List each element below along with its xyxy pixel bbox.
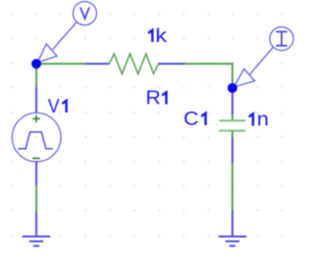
ground lead left (blue) xyxy=(35,212,37,237)
voltage probe circle xyxy=(73,2,97,26)
resistor R1 left lead (blue) xyxy=(86,63,109,65)
label R1 xyxy=(146,87,168,109)
wire: V1 to ground (green) xyxy=(35,185,37,212)
node B junction dot xyxy=(228,83,238,93)
capacitor C1 bottom stub (green) xyxy=(231,131,233,138)
V1 pulse waveform xyxy=(18,132,53,149)
voltage probe shaft xyxy=(53,22,77,50)
resistor R1 zigzag body xyxy=(109,54,158,74)
resistor R1 right lead (blue) xyxy=(158,63,185,65)
current probe circle xyxy=(270,27,294,51)
wire: resistor to node B corner (green) xyxy=(185,64,232,84)
current probe arrowhead xyxy=(234,69,255,87)
V1 plus mark xyxy=(33,115,40,122)
wire: node A to resistor left lead (green) xyxy=(36,63,86,65)
node A junction dot xyxy=(31,59,41,69)
svg-text:R: R xyxy=(146,87,161,109)
capacitor bottom pin (blue) xyxy=(231,137,233,163)
label 1k xyxy=(148,25,167,47)
svg-text:V: V xyxy=(48,96,60,118)
wire: capacitor to ground (green) xyxy=(231,163,233,210)
ground lead right (blue) xyxy=(231,210,233,237)
V1 minus mark xyxy=(33,157,40,159)
label V1 xyxy=(48,96,68,118)
wire: node A down (green) xyxy=(35,66,37,88)
node B wire down to capacitor (blue pin) xyxy=(231,88,233,114)
svg-text:n: n xyxy=(257,109,269,131)
capacitor C1 plates xyxy=(219,121,245,131)
label 1n xyxy=(249,109,269,131)
voltage probe arrowhead xyxy=(38,44,58,63)
svg-text:C: C xyxy=(184,108,199,130)
voltage source V1 circle xyxy=(12,113,61,162)
label C1 xyxy=(184,108,207,130)
current probe shaft xyxy=(249,47,273,75)
svg-text:k: k xyxy=(155,25,167,47)
V1 top pin (blue) xyxy=(35,88,37,114)
ground symbol right xyxy=(218,237,246,246)
V1 bottom pin (blue) xyxy=(35,162,37,186)
capacitor C1 top stub (green) xyxy=(231,114,233,120)
current probe I glyph xyxy=(276,32,287,46)
voltage probe V glyph xyxy=(80,7,89,18)
ground symbol left xyxy=(22,237,50,246)
